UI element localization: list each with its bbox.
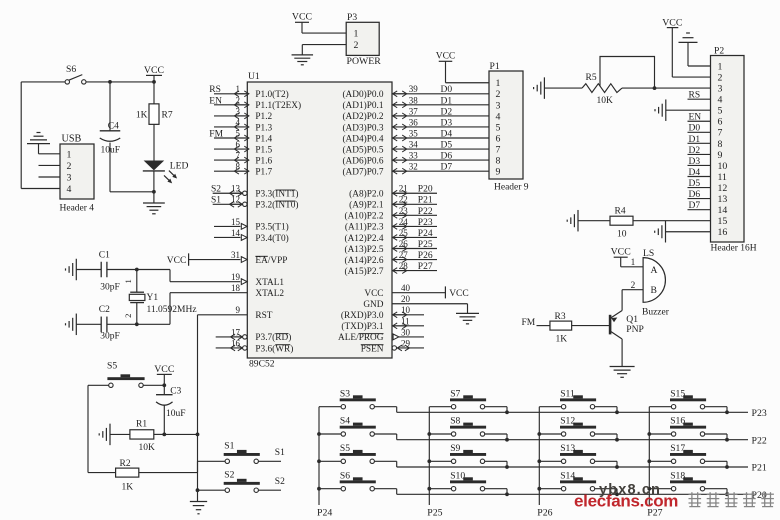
- svg-text:EN: EN: [209, 96, 222, 106]
- svg-text:P23: P23: [418, 218, 433, 228]
- svg-text:B: B: [651, 285, 657, 296]
- svg-text:17: 17: [231, 327, 241, 337]
- svg-text:S18: S18: [670, 470, 685, 481]
- svg-text:S9: S9: [450, 443, 460, 454]
- svg-text:23: 23: [399, 206, 409, 216]
- svg-text:10uF: 10uF: [166, 409, 186, 419]
- svg-text:9: 9: [718, 150, 723, 161]
- svg-text:RS: RS: [689, 91, 701, 101]
- svg-text:2: 2: [496, 89, 501, 100]
- svg-text:19: 19: [231, 272, 241, 282]
- svg-text:P1.0(T2): P1.0(T2): [255, 89, 288, 100]
- svg-text:4: 4: [718, 95, 723, 106]
- svg-text:(TXD)P3.1: (TXD)P3.1: [341, 321, 383, 332]
- svg-text:2: 2: [631, 281, 636, 291]
- svg-text:S12: S12: [560, 416, 575, 427]
- svg-text:16: 16: [718, 227, 728, 238]
- svg-text:P1.3: P1.3: [255, 123, 272, 133]
- svg-text:11.0592MHz: 11.0592MHz: [147, 305, 197, 315]
- svg-text:S2: S2: [275, 477, 285, 487]
- svg-text:27: 27: [399, 250, 409, 260]
- svg-text:2: 2: [718, 72, 723, 83]
- svg-text:VCC: VCC: [364, 289, 383, 299]
- svg-text:3: 3: [236, 106, 241, 116]
- svg-text:P3.4(T0): P3.4(T0): [255, 233, 288, 244]
- svg-text:P1.2: P1.2: [255, 112, 272, 122]
- svg-text:5: 5: [718, 106, 723, 117]
- svg-text:5: 5: [496, 122, 501, 133]
- svg-text:1K: 1K: [136, 111, 148, 121]
- svg-text:30pF: 30pF: [100, 331, 120, 341]
- svg-text:P1.1(T2EX): P1.1(T2EX): [255, 100, 301, 111]
- svg-text:S6: S6: [66, 64, 76, 75]
- svg-text:PSEN: PSEN: [361, 344, 384, 354]
- svg-text:USB: USB: [62, 134, 82, 145]
- svg-text:P22: P22: [418, 207, 433, 217]
- svg-text:R2: R2: [120, 459, 131, 469]
- svg-text:18: 18: [231, 283, 241, 293]
- svg-text:P3.3(INT1): P3.3(INT1): [255, 189, 298, 200]
- svg-text:10: 10: [401, 305, 411, 315]
- svg-text:R4: R4: [615, 207, 626, 217]
- svg-text:37: 37: [409, 106, 419, 116]
- svg-text:Buzzer: Buzzer: [642, 308, 670, 318]
- svg-text:VCC: VCC: [292, 12, 312, 23]
- svg-text:P24: P24: [317, 508, 332, 519]
- svg-text:8: 8: [236, 162, 241, 172]
- svg-text:1: 1: [67, 149, 72, 160]
- svg-text:12: 12: [231, 195, 240, 205]
- svg-text:(A12)P2.4: (A12)P2.4: [345, 233, 384, 244]
- svg-text:1K: 1K: [556, 335, 568, 345]
- svg-text:RS: RS: [209, 85, 221, 95]
- svg-text:D5: D5: [689, 179, 701, 189]
- svg-text:32: 32: [409, 162, 418, 172]
- svg-text:1: 1: [123, 279, 133, 283]
- svg-text:C3: C3: [170, 387, 181, 397]
- svg-text:15: 15: [231, 217, 241, 227]
- svg-text:P3: P3: [347, 12, 357, 23]
- svg-text:38: 38: [409, 95, 419, 105]
- svg-text:P26: P26: [537, 508, 552, 519]
- svg-text:D5: D5: [441, 140, 453, 150]
- svg-text:S7: S7: [450, 388, 460, 399]
- svg-text:D0: D0: [441, 85, 453, 95]
- svg-text:(A9)P2.1: (A9)P2.1: [349, 200, 384, 211]
- svg-text:8: 8: [496, 156, 501, 167]
- svg-text:P27: P27: [418, 262, 433, 272]
- svg-text:9: 9: [496, 167, 501, 178]
- svg-text:FM: FM: [209, 129, 223, 139]
- svg-text:P23: P23: [752, 408, 767, 419]
- svg-text:D0: D0: [689, 124, 701, 134]
- svg-text:10: 10: [718, 161, 728, 172]
- svg-text:30: 30: [401, 327, 411, 337]
- svg-text:(A13)P2.5: (A13)P2.5: [345, 244, 384, 255]
- svg-text:P1.5: P1.5: [255, 145, 272, 155]
- svg-text:D1: D1: [689, 135, 701, 145]
- svg-text:89C52: 89C52: [249, 359, 275, 370]
- svg-text:LED: LED: [170, 160, 189, 171]
- svg-text:S3: S3: [340, 388, 350, 399]
- svg-text:D4: D4: [441, 129, 453, 139]
- svg-text:R1: R1: [136, 420, 147, 430]
- svg-text:21: 21: [399, 184, 408, 194]
- svg-text:VCC: VCC: [662, 18, 682, 29]
- svg-text:(AD5)P0.5: (AD5)P0.5: [342, 144, 383, 155]
- svg-text:EN: EN: [689, 113, 702, 123]
- svg-text:D3: D3: [689, 157, 701, 167]
- svg-text:P24: P24: [418, 229, 433, 239]
- svg-text:5: 5: [236, 128, 241, 138]
- svg-text:12: 12: [718, 183, 728, 194]
- svg-text:14: 14: [231, 228, 241, 238]
- svg-text:30pF: 30pF: [100, 282, 120, 292]
- svg-text:VCC: VCC: [611, 247, 631, 258]
- svg-text:VCC: VCC: [449, 289, 469, 299]
- svg-text:D7: D7: [441, 163, 453, 173]
- svg-text:28: 28: [399, 261, 409, 271]
- svg-text:C1: C1: [99, 251, 110, 261]
- svg-text:9: 9: [236, 305, 241, 315]
- svg-text:C4: C4: [108, 122, 119, 132]
- svg-text:1K: 1K: [122, 482, 134, 492]
- svg-text:VCC: VCC: [436, 52, 456, 62]
- svg-text:10uF: 10uF: [101, 146, 121, 156]
- svg-text:P25: P25: [418, 240, 433, 250]
- svg-text:6: 6: [718, 117, 723, 128]
- svg-text:8: 8: [718, 139, 723, 150]
- svg-text:1: 1: [236, 84, 241, 94]
- svg-text:S16: S16: [670, 416, 685, 427]
- svg-text:31: 31: [231, 250, 240, 260]
- svg-text:(A11)P2.3: (A11)P2.3: [345, 222, 384, 233]
- svg-text:6: 6: [236, 139, 241, 149]
- svg-text:P1: P1: [490, 61, 500, 72]
- svg-text:P22: P22: [752, 435, 767, 446]
- svg-text:P3.2(INT0): P3.2(INT0): [255, 200, 298, 211]
- svg-text:16: 16: [231, 338, 241, 348]
- svg-text:VCC: VCC: [167, 256, 187, 266]
- svg-text:13: 13: [718, 194, 728, 205]
- svg-text:XTAL2: XTAL2: [255, 289, 284, 299]
- svg-text:14: 14: [718, 205, 728, 216]
- svg-text:FM: FM: [522, 318, 536, 328]
- svg-text:25: 25: [399, 228, 409, 238]
- svg-text:VCC: VCC: [154, 364, 174, 375]
- svg-text:D4: D4: [689, 168, 701, 178]
- svg-text:P1.7: P1.7: [255, 167, 272, 177]
- svg-text:24: 24: [399, 217, 409, 227]
- svg-text:ALE/PROG: ALE/PROG: [338, 333, 384, 343]
- svg-text:11: 11: [401, 316, 410, 326]
- svg-text:A: A: [651, 265, 658, 276]
- svg-text:P3.5(T1): P3.5(T1): [255, 222, 288, 233]
- svg-text:(AD2)P0.2: (AD2)P0.2: [342, 111, 383, 122]
- svg-text:RST: RST: [255, 311, 272, 321]
- svg-text:(AD6)P0.6: (AD6)P0.6: [342, 155, 383, 166]
- svg-text:1: 1: [631, 258, 636, 268]
- svg-text:7: 7: [718, 128, 723, 139]
- svg-text:S14: S14: [560, 470, 575, 481]
- svg-text:P3.7(RD): P3.7(RD): [255, 332, 291, 343]
- svg-text:40: 40: [401, 283, 411, 293]
- svg-text:P21: P21: [752, 463, 767, 474]
- svg-text:S8: S8: [450, 416, 460, 427]
- svg-text:Header 16H: Header 16H: [711, 244, 757, 254]
- svg-text:29: 29: [401, 338, 411, 348]
- svg-text:15: 15: [718, 216, 728, 227]
- svg-text:C2: C2: [99, 305, 110, 315]
- svg-text:R7: R7: [162, 111, 173, 121]
- svg-text:P25: P25: [427, 508, 442, 519]
- svg-text:13: 13: [231, 184, 241, 194]
- svg-text:10: 10: [617, 230, 627, 240]
- svg-text:P3.6(WR): P3.6(WR): [255, 343, 293, 354]
- svg-text:D6: D6: [441, 152, 453, 162]
- svg-text:S2: S2: [224, 470, 234, 481]
- svg-text:LS: LS: [643, 248, 654, 259]
- svg-text:S6: S6: [340, 470, 350, 481]
- svg-text:(AD4)P0.4: (AD4)P0.4: [342, 133, 383, 144]
- svg-text:D1: D1: [441, 96, 453, 106]
- svg-text:elecfans.com: elecfans.com: [574, 492, 678, 511]
- svg-text:U1: U1: [248, 71, 260, 82]
- svg-text:2: 2: [67, 161, 72, 172]
- svg-text:(RXD)P3.0: (RXD)P3.0: [341, 310, 384, 321]
- svg-text:22: 22: [399, 195, 408, 205]
- svg-text:POWER: POWER: [347, 56, 382, 67]
- svg-text:S1: S1: [275, 448, 285, 458]
- svg-text:4: 4: [67, 184, 72, 195]
- svg-text:Header 9: Header 9: [494, 183, 529, 193]
- svg-text:R3: R3: [555, 312, 566, 322]
- svg-text:P1.6: P1.6: [255, 156, 272, 166]
- svg-text:D7: D7: [689, 201, 701, 211]
- svg-text:Y1: Y1: [147, 293, 159, 303]
- svg-text:3: 3: [67, 173, 72, 184]
- svg-text:(A10)P2.2: (A10)P2.2: [345, 211, 384, 222]
- svg-text:2: 2: [354, 40, 359, 51]
- svg-text:3: 3: [718, 84, 723, 95]
- svg-text:S4: S4: [340, 416, 350, 427]
- svg-text:35: 35: [409, 128, 419, 138]
- svg-text:S10: S10: [450, 470, 465, 481]
- svg-text:(AD3)P0.3: (AD3)P0.3: [342, 122, 383, 133]
- svg-text:S5: S5: [340, 443, 350, 454]
- svg-text:S11: S11: [560, 388, 575, 399]
- svg-text:4: 4: [236, 117, 241, 127]
- svg-text:P20: P20: [418, 185, 433, 195]
- svg-text:(A15)P2.7: (A15)P2.7: [345, 266, 384, 277]
- svg-text:34: 34: [409, 139, 419, 149]
- svg-text:P21: P21: [418, 196, 433, 206]
- svg-text:EA/VPP: EA/VPP: [255, 256, 287, 266]
- svg-text:P1.4: P1.4: [255, 134, 272, 144]
- svg-text:S2: S2: [211, 185, 221, 195]
- svg-text:S1: S1: [211, 196, 221, 206]
- svg-text:D3: D3: [441, 118, 453, 128]
- svg-text:26: 26: [399, 239, 409, 249]
- svg-text:S5: S5: [107, 361, 117, 372]
- svg-text:20: 20: [401, 294, 411, 304]
- svg-text:1: 1: [354, 29, 359, 40]
- svg-text:1: 1: [718, 61, 723, 72]
- svg-text:7: 7: [236, 151, 241, 161]
- svg-text:33: 33: [409, 151, 419, 161]
- svg-text:P26: P26: [418, 251, 433, 261]
- svg-text:S15: S15: [670, 388, 685, 399]
- svg-text:D2: D2: [689, 146, 701, 156]
- svg-text:D6: D6: [689, 190, 701, 200]
- svg-text:(A14)P2.6: (A14)P2.6: [345, 255, 384, 266]
- svg-text:10K: 10K: [139, 443, 156, 453]
- svg-text:(A8)P2.0: (A8)P2.0: [349, 189, 384, 200]
- svg-text:(AD7)P0.7: (AD7)P0.7: [342, 166, 383, 177]
- svg-text:11: 11: [718, 172, 728, 183]
- svg-text:PNP: PNP: [626, 324, 644, 335]
- svg-text:P2: P2: [714, 46, 724, 57]
- svg-text:S17: S17: [670, 443, 685, 454]
- svg-text:S13: S13: [560, 443, 575, 454]
- svg-text:1: 1: [496, 78, 501, 89]
- svg-text:R5: R5: [586, 73, 597, 83]
- svg-text:(AD1)P0.1: (AD1)P0.1: [342, 100, 383, 111]
- svg-text:2: 2: [123, 314, 133, 318]
- svg-text:D2: D2: [441, 107, 453, 117]
- svg-text:2: 2: [236, 95, 241, 105]
- svg-text:7: 7: [496, 144, 501, 155]
- svg-text:36: 36: [409, 117, 419, 127]
- svg-text:6: 6: [496, 133, 501, 144]
- svg-text:4: 4: [496, 111, 501, 122]
- svg-text:39: 39: [409, 84, 419, 94]
- svg-text:(AD0)P0.0: (AD0)P0.0: [342, 89, 383, 100]
- svg-text:GND: GND: [363, 300, 383, 310]
- svg-text:S1: S1: [224, 441, 234, 452]
- svg-text:VCC: VCC: [144, 65, 164, 76]
- svg-text:Header 4: Header 4: [60, 204, 95, 214]
- svg-text:10K: 10K: [597, 96, 614, 106]
- svg-text:3: 3: [496, 100, 501, 111]
- svg-text:XTAL1: XTAL1: [255, 278, 284, 288]
